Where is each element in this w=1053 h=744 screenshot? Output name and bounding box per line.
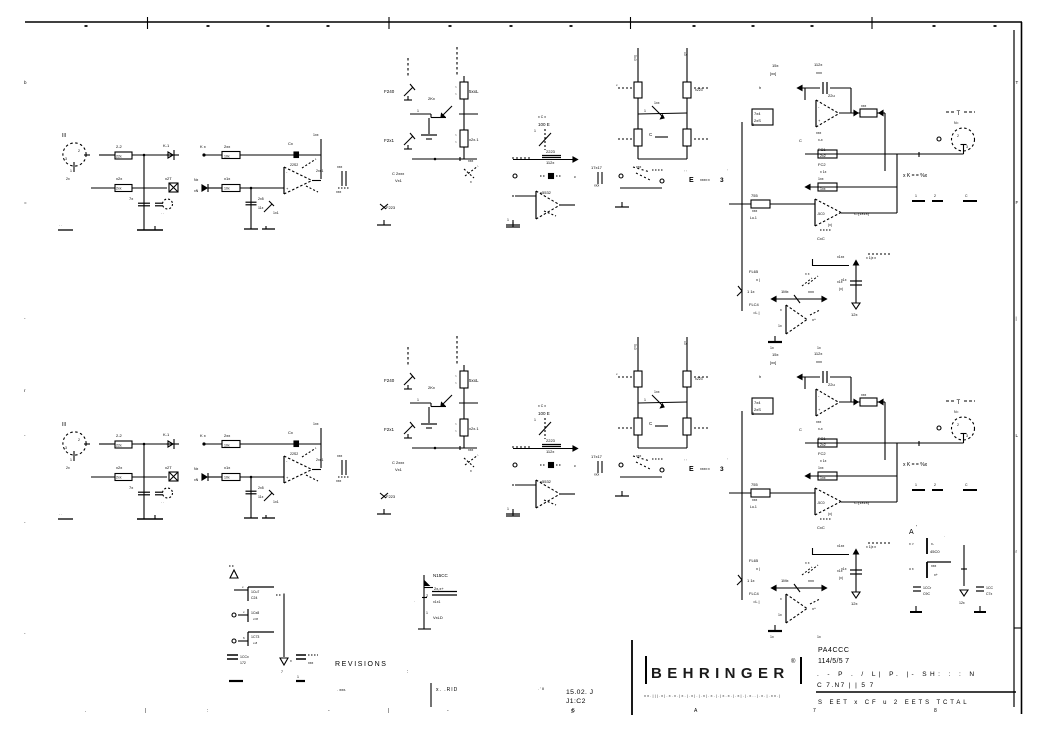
svg-text:112x: 112x	[546, 160, 554, 165]
svg-text:7x: 7x	[129, 196, 133, 201]
svg-text:7: 7	[813, 708, 816, 714]
svg-text:FC2: FC2	[818, 162, 826, 167]
svg-text:. .: . .	[59, 223, 62, 227]
svg-text:1xx: 1xx	[820, 187, 826, 191]
svg-text:C24: C24	[251, 596, 257, 600]
svg-text:Nx: Nx	[194, 178, 199, 182]
svg-text:T: T	[1016, 80, 1019, 85]
svg-text:VxLD: VxLD	[433, 615, 443, 620]
svg-text:2Kx: 2Kx	[428, 96, 435, 101]
svg-text:3: 3	[720, 177, 724, 184]
svg-text:x K = = %x: x K = = %x	[903, 173, 928, 179]
svg-text:1: 1	[297, 675, 299, 679]
svg-text:S EET x CF u 2 EETS TCTAL: S EET x CF u 2 EETS TCTAL	[818, 700, 970, 706]
svg-text:FL65: FL65	[749, 269, 759, 274]
svg-text:|: |	[145, 708, 146, 714]
svg-text:A: A	[909, 529, 914, 536]
svg-text:1xx: 1xx	[654, 101, 660, 105]
svg-text:. ' II: . ' II	[538, 686, 544, 691]
svg-text:F: F	[1016, 200, 1019, 205]
svg-text:x=8: x=8	[253, 617, 258, 621]
svg-text:. xxx.: . xxx.	[337, 687, 346, 692]
svg-text:15x: 15x	[772, 63, 778, 68]
svg-text:xxx: xxx	[861, 104, 867, 108]
svg-text:REVISIONS: REVISIONS	[335, 661, 388, 668]
svg-text:755: 755	[751, 193, 758, 198]
svg-text:PA4CCC: PA4CCC	[818, 647, 849, 654]
svg-text:x C x: x C x	[538, 115, 546, 119]
svg-text:N15CC: N15CC	[433, 573, 449, 578]
svg-text:Vx1: Vx1	[395, 178, 403, 183]
svg-text:h: h	[759, 85, 761, 90]
svg-text:1Cx8: 1Cx8	[251, 611, 259, 615]
svg-text:>: >	[455, 140, 457, 144]
svg-text:15.02. J: 15.02. J	[566, 689, 593, 696]
svg-text:F240: F240	[384, 89, 395, 94]
svg-text::: :	[207, 708, 208, 714]
svg-text:.: .	[85, 708, 86, 714]
svg-text:114/5/5 7: 114/5/5 7	[818, 658, 849, 665]
svg-text:E: E	[689, 177, 694, 184]
svg-text:1 1x: 1 1x	[747, 289, 755, 294]
svg-text:7x4: 7x4	[754, 111, 761, 116]
svg-text:1C73: 1C73	[251, 635, 259, 639]
svg-text:C: C	[799, 138, 802, 143]
svg-text:T: T	[957, 111, 961, 117]
svg-text:2: 2	[957, 134, 959, 138]
svg-text:2xx: 2xx	[224, 144, 230, 149]
svg-text:': '	[916, 525, 917, 531]
svg-text:K x: K x	[200, 144, 206, 149]
svg-text:=: =	[24, 200, 27, 205]
svg-text:(x): (x)	[839, 287, 843, 291]
svg-text:xxx: xxx	[816, 131, 822, 135]
svg-text:xxx: xxx	[636, 165, 642, 169]
svg-text:x1x1: x1x1	[433, 600, 440, 604]
svg-text:[xx]: [xx]	[770, 71, 776, 76]
svg-text:100 E: 100 E	[538, 122, 550, 127]
svg-text:11x: 11x	[258, 206, 264, 210]
svg-text:1: 1	[644, 109, 646, 113]
svg-text:3: 3	[65, 157, 67, 161]
svg-text:x3: x3	[683, 52, 687, 56]
svg-text:x x . | | | . x | . x . x . |: x x . | | | . x | . x . x . | x . | . x …	[644, 693, 780, 698]
svg-text:7: 7	[281, 670, 283, 674]
svg-text:III: III	[62, 133, 66, 139]
svg-text:.: .	[414, 599, 415, 603]
svg-text:x1x: x1x	[224, 176, 230, 181]
svg-text:' ': ' '	[684, 169, 687, 174]
svg-text:xxx: xxx	[808, 289, 814, 294]
svg-text:xxx: xxx	[752, 209, 758, 213]
svg-text:1Mx: 1Mx	[781, 289, 789, 294]
svg-text:1CCx: 1CCx	[240, 655, 249, 659]
svg-text:C9C: C9C	[923, 592, 930, 596]
svg-text:2xS: 2xS	[754, 118, 761, 123]
svg-text:1x: 1x	[770, 346, 774, 350]
svg-text:F223: F223	[386, 205, 396, 210]
svg-text:xxx: xxx	[336, 190, 342, 194]
svg-text:2x,x+: 2x,x+	[434, 586, 444, 591]
svg-text:1: 1	[534, 129, 536, 133]
svg-text:x 1|x x: x 1|x x	[866, 256, 876, 260]
svg-text:-5C0: -5C0	[817, 212, 825, 216]
svg-text:®: ®	[791, 658, 796, 665]
svg-text:xxx: xxx	[931, 564, 937, 568]
svg-text:5: 5	[571, 709, 574, 715]
svg-text:x+: x+	[934, 573, 938, 577]
svg-text:|: |	[388, 708, 389, 714]
svg-text:x x: x x	[805, 272, 810, 276]
svg-text:K-1: K-1	[163, 143, 170, 148]
svg-text:22x: 22x	[116, 155, 122, 159]
svg-text:10x: 10x	[224, 187, 230, 191]
svg-text:>: >	[455, 92, 457, 96]
svg-text:x 1x: x 1x	[820, 170, 827, 174]
svg-text:x2T: x2T	[165, 176, 172, 181]
svg-text:xN: xN	[194, 189, 199, 193]
svg-text:1: 1	[507, 218, 509, 222]
svg-text:2x5: 2x5	[258, 197, 264, 201]
svg-text:>: >	[455, 133, 457, 137]
svg-text:1CCr: 1CCr	[923, 586, 932, 590]
svg-text:2xx: 2xx	[116, 187, 122, 191]
svg-text:x: x	[780, 308, 782, 312]
svg-text:1: 1	[70, 169, 72, 173]
svg-text:2xx1: 2xx1	[316, 169, 323, 173]
svg-text:Lu.1: Lu.1	[750, 216, 757, 220]
svg-text:J1:C2: J1:C2	[566, 698, 586, 705]
svg-text:x2x.1: x2x.1	[469, 137, 479, 142]
svg-text:x223: x223	[695, 88, 703, 92]
svg-text:xxx: xxx	[468, 159, 474, 163]
svg-text:2223: 2223	[546, 149, 556, 154]
svg-text:17x17: 17x17	[591, 165, 603, 170]
svg-text:8: 8	[934, 708, 937, 714]
svg-text:x-x: x-x	[818, 138, 823, 142]
svg-text:1x: 1x	[778, 324, 782, 328]
svg-text:x >: x >	[909, 542, 914, 546]
svg-text:x: x	[290, 659, 292, 663]
svg-text:1x: 1x	[817, 346, 821, 350]
svg-text:1: 1	[915, 194, 917, 198]
svg-text:. .: . .	[161, 211, 164, 215]
svg-text:.: .	[944, 534, 945, 538]
svg-text:xxx: xxx	[594, 184, 600, 188]
svg-text:112x: 112x	[814, 62, 822, 67]
svg-text:5x3: 5x3	[633, 55, 637, 61]
svg-text:1xx: 1xx	[313, 133, 319, 137]
svg-text:xxxx:x: xxxx:x	[700, 178, 710, 182]
svg-text:1Cu7: 1Cu7	[251, 590, 259, 594]
svg-text:xxx: xxx	[308, 661, 314, 665]
svg-text:CxC: CxC	[817, 236, 825, 241]
svg-text:172: 172	[240, 661, 246, 665]
svg-text:10x: 10x	[224, 155, 230, 159]
svg-text:x-8: x-8	[253, 641, 257, 645]
svg-text:. - P . / L| P. |- SH: : : N: . - P . / L| P. |- SH: : : N	[817, 671, 977, 678]
svg-text:|: |	[1016, 316, 1017, 321]
svg-text:=L |: =L |	[753, 310, 760, 315]
svg-text:1xx: 1xx	[818, 177, 824, 181]
svg-text:C 2xxx: C 2xxx	[392, 171, 404, 176]
svg-text:x |: x |	[756, 277, 760, 282]
svg-text:2x: 2x	[66, 177, 70, 181]
svg-text:>: >	[455, 85, 457, 89]
svg-text:x. .RID: x. .RID	[436, 687, 458, 693]
svg-text:xxx: xxx	[337, 165, 343, 169]
svg-text:2-2: 2-2	[116, 144, 123, 149]
svg-text:2x2: 2x2	[820, 154, 826, 158]
svg-text:o x: o x	[909, 567, 914, 571]
svg-text:1CC: 1CC	[986, 586, 993, 590]
svg-text:C7x: C7x	[986, 592, 992, 596]
svg-text:C:(1x1x): C:(1x1x)	[854, 211, 870, 216]
svg-text:2: 2	[78, 149, 80, 153]
svg-text:1x1: 1x1	[273, 211, 279, 215]
svg-text:45C0: 45C0	[930, 549, 940, 554]
svg-text:12x: 12x	[851, 312, 857, 317]
svg-text:x1x: x1x	[841, 278, 847, 282]
svg-text:1: 1	[426, 611, 428, 615]
svg-text:FLC4: FLC4	[749, 302, 760, 307]
svg-text:c: c	[574, 174, 576, 179]
svg-text:x2x: x2x	[116, 176, 122, 181]
svg-text:x: x	[470, 180, 472, 184]
svg-text:3: 3	[966, 145, 968, 149]
svg-text:C 7.N7 | | 5 7: C 7.N7 | | 5 7	[817, 682, 875, 689]
svg-text:Cx: Cx	[288, 141, 293, 146]
svg-text::: :	[407, 669, 408, 675]
svg-text:(x): (x)	[828, 223, 832, 227]
svg-text:F2x1: F2x1	[384, 138, 395, 143]
svg-text:22S2: 22S2	[290, 163, 298, 167]
svg-text:x1xx: x1xx	[837, 255, 844, 259]
svg-text:xxx: xxx	[816, 70, 822, 75]
svg-text:BEHRINGER: BEHRINGER	[651, 665, 790, 682]
svg-text:5xxL: 5xxL	[469, 89, 479, 94]
svg-text:2: 2	[934, 194, 936, 198]
svg-text:N=: N=	[954, 121, 959, 125]
svg-text:12x: 12x	[959, 601, 965, 605]
svg-text:22u: 22u	[828, 93, 835, 98]
svg-text:1: 1	[417, 109, 419, 113]
svg-text:x^: x^	[812, 317, 816, 322]
